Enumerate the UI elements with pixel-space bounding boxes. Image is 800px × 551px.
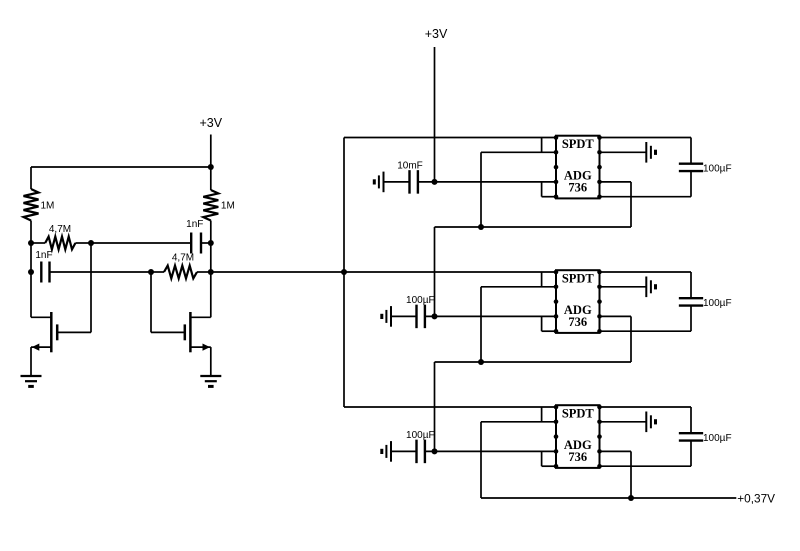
- wire U1 pin2 down to lower rail: [480, 152, 482, 227]
- ground (U2 pin R2): [645, 277, 647, 298]
- wire clock rail vertical: [343, 138, 345, 408]
- wire U2 pin2 feed: [481, 286, 556, 288]
- wire U3 pin R5 to C8 bottom: [600, 465, 692, 467]
- wire jog U2 pin1-pin2: [541, 272, 543, 287]
- svg-text:+0,37V: +0,37V: [737, 491, 775, 505]
- node clock rail / row B: [341, 269, 347, 275]
- svg-text:100µF: 100µF: [703, 164, 732, 175]
- op-amp U2 ADG736 dual SPDT switch: [556, 270, 600, 333]
- node C3 / vertical rail: [432, 179, 438, 185]
- wire U1 pin R5 to C6 bottom: [600, 196, 692, 198]
- wire R3 to junction: [75, 242, 91, 244]
- pins U1 right 6-10: [597, 135, 602, 199]
- arrow source Q1: [32, 344, 40, 351]
- node output junction: [628, 495, 634, 501]
- svg-text:SPDT: SPDT: [562, 137, 595, 151]
- wire U1 pin R4: [600, 181, 632, 183]
- resistor R4 4,7M (right): [164, 266, 197, 279]
- wire C8 down: [690, 441, 692, 467]
- wire C6 down: [690, 171, 692, 197]
- wire source Q2: [190, 346, 210, 348]
- wire junction to R4: [151, 271, 164, 273]
- wire ground to C3: [384, 181, 410, 183]
- wire C5 to U3 pin4: [425, 450, 556, 452]
- ground (U3 pin R2): [645, 412, 647, 433]
- node junction +3V / top rail: [208, 164, 214, 170]
- resistor R1 1M (left): [24, 189, 39, 221]
- ground (C5 100µF): [390, 441, 392, 462]
- svg-text:SPDT: SPDT: [562, 407, 595, 421]
- capacitor C1 1nF (row B): [40, 262, 42, 283]
- wire line A2 to U2 pin1: [344, 271, 556, 273]
- svg-text:4,7M: 4,7M: [172, 253, 194, 264]
- capacitor C7 100µF: [679, 297, 703, 299]
- node junction row A / drain Q1: [88, 240, 94, 246]
- capacitor C8 100µF: [679, 432, 703, 434]
- wire U3 pin R2 to ground: [600, 421, 646, 423]
- wire U2 pin R4: [600, 315, 632, 317]
- wire left column row A to row B: [30, 243, 32, 272]
- wire source Q1 down: [30, 347, 32, 376]
- wire to gate bar Q2: [151, 331, 185, 333]
- ground (C3 10mF): [383, 172, 385, 193]
- op-amp U3 ADG736 dual SPDT switch: [556, 405, 600, 468]
- node junction row B / gate Q2: [148, 269, 154, 275]
- transistor Q2 (right MOSFET): [185, 312, 191, 352]
- capacitor C2 1nF (row A): [190, 233, 192, 254]
- svg-text:100µF: 100µF: [406, 295, 435, 306]
- svg-text:1nF: 1nF: [35, 250, 52, 261]
- wire rail down to C4 node: [434, 227, 436, 316]
- wire line A3 to U3 pin1: [344, 406, 556, 408]
- capacitor C3 10mF: [408, 170, 410, 194]
- wire lower rail 2: [435, 361, 632, 363]
- resistor R3 4,7M (left): [45, 237, 75, 250]
- capacitor C6 100µF: [679, 162, 703, 164]
- wire down to C8: [690, 407, 692, 433]
- svg-text:736: 736: [568, 315, 587, 329]
- svg-text:100µF: 100µF: [406, 430, 435, 441]
- transistor Q1 (left MOSFET): [51, 312, 57, 352]
- wire row B to clock rail: [211, 271, 344, 273]
- svg-text:10mF: 10mF: [397, 161, 423, 172]
- ground (Q1 source): [21, 375, 42, 377]
- arrow source Q2: [203, 344, 211, 351]
- svg-text:1M: 1M: [41, 201, 55, 212]
- wire +3V rail down to C3 node: [434, 47, 436, 182]
- wire node B to node C: [210, 243, 212, 272]
- pins U3 right 6-10: [597, 405, 602, 469]
- wire U1 pin5 stub: [542, 196, 556, 198]
- wire right column top: [210, 167, 212, 190]
- node row B left: [28, 269, 34, 275]
- wire U3 pin R4 down to lower rail: [630, 451, 632, 498]
- wire right column between R2 and node B: [210, 221, 212, 244]
- wire U2 pin R2 to ground: [600, 286, 646, 288]
- wire jog U2 pin4-pin5: [541, 316, 543, 331]
- wire C4 to U2 pin4: [425, 315, 556, 317]
- svg-text:100µF: 100µF: [703, 298, 732, 309]
- wire U2 pin5 stub: [542, 330, 556, 332]
- svg-text:+3V: +3V: [200, 116, 223, 130]
- pins U1 left 1-5: [554, 135, 559, 199]
- wire R4 to node C: [197, 271, 211, 273]
- wire ground to C5: [391, 450, 417, 452]
- wire output +0,37V: [481, 497, 736, 499]
- wire U3 pin R4: [600, 450, 632, 452]
- wire U3 pin R1 to C8 top: [600, 406, 692, 408]
- wire to gate bar Q1: [31, 316, 51, 318]
- svg-text:+3V: +3V: [425, 27, 448, 41]
- wire drain Q1 up to row A: [90, 243, 92, 332]
- wire U3 pin2 feed: [481, 421, 556, 423]
- ground (U1 pin R2): [645, 142, 647, 163]
- wire row A to C2: [91, 242, 191, 244]
- wire down to C7: [690, 272, 692, 298]
- wire C7 down: [690, 306, 692, 332]
- wire jog U3 pin4-pin5: [541, 451, 543, 466]
- wire U1 pin R2 to ground: [600, 151, 646, 153]
- wire U1 pin2 feed: [481, 151, 556, 153]
- capacitor C5 100µF: [415, 440, 417, 464]
- wire jog U1 pin1-pin2: [541, 138, 543, 153]
- node C5 / vertical rail: [432, 448, 438, 454]
- ground (C4 100µF): [390, 306, 392, 327]
- node B right (row A): [208, 240, 214, 246]
- wire U3 pin5 stub: [542, 465, 556, 467]
- resistor R2 1M (right): [203, 190, 218, 221]
- wire jog U3 pin1-pin2: [541, 407, 543, 422]
- wire U3 pin2 down to lower rail: [480, 422, 482, 498]
- pins U2 right 6-10: [597, 270, 602, 334]
- wire gate feed Q1 down: [30, 272, 32, 317]
- node C4 / vertical rail: [432, 313, 438, 319]
- wire lower rail 1: [435, 226, 632, 228]
- wire ground to C4: [391, 315, 417, 317]
- wire drain Q2: [190, 316, 210, 318]
- node A left (row A): [28, 240, 34, 246]
- node C (row B right): [208, 269, 214, 275]
- wire U1 pin R4 down to lower rail: [630, 182, 632, 227]
- pins U3 left 1-5: [554, 405, 559, 469]
- wire node A to R3: [31, 242, 45, 244]
- wire source Q1: [31, 346, 51, 348]
- wire C3 to U1 pin4: [418, 181, 556, 183]
- wire gate feed Q2 down: [150, 272, 152, 332]
- capacitor C4 100µF: [415, 305, 417, 329]
- svg-text:1M: 1M: [221, 201, 235, 212]
- svg-text:1nF: 1nF: [186, 219, 203, 230]
- svg-text:4,7M: 4,7M: [49, 224, 71, 235]
- wire U2 pin R4 down to lower rail: [630, 316, 632, 362]
- wire U2 pin2 down to lower rail: [480, 287, 482, 362]
- ground (Q2 source): [200, 375, 221, 377]
- wire U1 pin R1 to C6 top: [600, 137, 692, 139]
- wire jog U1 pin4-pin5: [541, 182, 543, 197]
- wire source Q2 down: [210, 347, 212, 376]
- wire drain Q1: [57, 331, 91, 333]
- svg-text:SPDT: SPDT: [562, 272, 595, 286]
- node lower rail 2 junction: [478, 359, 484, 365]
- svg-text:736: 736: [568, 450, 587, 464]
- pins U2 left 1-5: [554, 270, 559, 334]
- wire oscillator top rail: [31, 166, 211, 168]
- wire left column top: [30, 167, 32, 189]
- op-amp U1 ADG736 dual SPDT switch: [556, 136, 600, 199]
- wire U2 pin R1 to C7 top: [600, 271, 692, 273]
- node lower rail 1 junction: [478, 224, 484, 230]
- wire down to C6: [690, 138, 692, 164]
- wire line A1 to U1 pin1: [344, 137, 556, 139]
- svg-text:100µF: 100µF: [703, 433, 732, 444]
- wire +3V stub down to oscillator rail: [210, 135, 212, 168]
- wire C2 to node B: [201, 242, 211, 244]
- wire C1 to junction row B: [50, 271, 152, 273]
- wire rail down to C5 node: [434, 362, 436, 451]
- wire drain Q2 up to node C: [210, 272, 212, 317]
- svg-text:736: 736: [568, 180, 587, 194]
- wire left column between R1 and node A: [30, 221, 32, 244]
- wire U2 pin R5 to C7 bottom: [600, 330, 692, 332]
